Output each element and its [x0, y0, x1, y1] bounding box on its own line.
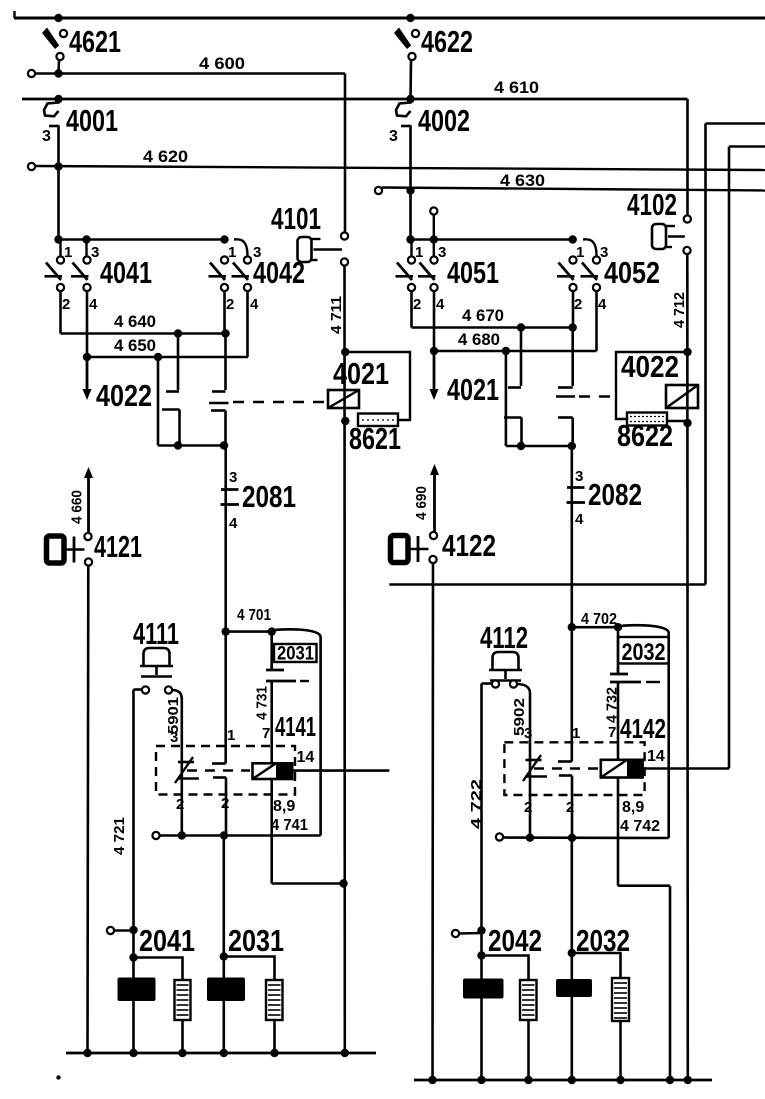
svg-text:4 650: 4 650	[114, 337, 156, 355]
wire 4660 arrow	[87, 476, 90, 533]
relay coil 4022	[683, 348, 691, 356]
connector 2082	[570, 446, 573, 627]
svg-text:4141: 4141	[275, 711, 316, 742]
wire 4600	[28, 70, 35, 77]
wire - feed line of switches 4051/4052	[411, 238, 573, 241]
wire 4650	[86, 291, 89, 357]
svg-text:1: 1	[227, 727, 235, 744]
svg-text:4 721: 4 721	[111, 817, 128, 855]
svg-text:4 701: 4 701	[237, 607, 271, 624]
node - fuse 4002 top	[406, 95, 414, 103]
svg-text:2082: 2082	[588, 477, 642, 512]
svg-text:4: 4	[575, 511, 584, 528]
wire - feed line of switches 4041/4042	[59, 238, 225, 241]
wire 5901	[172, 690, 182, 746]
svg-text:4: 4	[250, 296, 259, 313]
relay coil 4141	[253, 763, 293, 779]
svg-text:1: 1	[64, 244, 72, 261]
wire - reference arrow to relay 4021	[433, 351, 436, 391]
wire - relay 4142 pin 14	[643, 767, 729, 770]
svg-text:8,9: 8,9	[622, 799, 644, 816]
wire - relay 4142 pin 8,9 down	[617, 778, 620, 886]
svg-text:4 711: 4 711	[328, 296, 345, 334]
lamp group 2031	[223, 836, 226, 1054]
wire 4640	[59, 291, 62, 334]
svg-text:14: 14	[647, 748, 665, 765]
svg-text:14: 14	[297, 749, 315, 766]
wire 4701	[226, 630, 272, 633]
switch 4622	[394, 28, 411, 50]
svg-text:4 680: 4 680	[458, 331, 500, 349]
horn 4122	[430, 532, 437, 539]
svg-text:7: 7	[608, 724, 616, 741]
wire 4690 arrow	[433, 473, 436, 532]
svg-text:2: 2	[62, 296, 70, 313]
switch 4621	[42, 28, 59, 50]
svg-text:4 722: 4 722	[468, 779, 485, 829]
capacitor 2032 label frame	[618, 637, 669, 664]
svg-text:4051: 4051	[447, 255, 499, 290]
fuse 4001	[44, 99, 59, 116]
svg-text:4 640: 4 640	[114, 313, 156, 331]
svg-text:4052: 4052	[604, 255, 660, 290]
terminal of wire 4722	[452, 930, 459, 937]
relay 4141 armature pin 1-2	[224, 632, 227, 764]
wire - left ground bus	[66, 1052, 376, 1055]
svg-text:4102: 4102	[627, 187, 677, 222]
svg-text:2032: 2032	[576, 923, 630, 958]
wire - dashed actuation link of relay 4022	[579, 395, 614, 397]
svg-text:3: 3	[524, 725, 532, 742]
wire 4630	[375, 187, 382, 194]
svg-text:4142: 4142	[620, 713, 666, 744]
capacitor 2032	[617, 627, 620, 672]
wire - 8,9 jog to 4711 column	[272, 882, 344, 885]
svg-text:2081: 2081	[242, 479, 296, 514]
svg-text:4 742: 4 742	[620, 818, 660, 835]
wire 4712	[686, 254, 689, 1080]
svg-text:2: 2	[574, 296, 582, 313]
svg-text:1: 1	[572, 725, 580, 742]
relay contacts of 4021 (left changeover)	[177, 334, 180, 391]
svg-text:4 630: 4 630	[500, 172, 545, 190]
svg-text:4 620: 4 620	[143, 148, 188, 166]
svg-text:4 600: 4 600	[199, 55, 245, 73]
svg-text:4: 4	[89, 296, 98, 313]
svg-text:4: 4	[598, 296, 607, 313]
svg-text:3: 3	[229, 469, 237, 486]
wire - 4600 vertical drop to horn 4101	[344, 74, 347, 233]
svg-text:3: 3	[438, 244, 446, 261]
wire 4722	[482, 682, 493, 685]
svg-text:4622: 4622	[421, 24, 473, 59]
wire - loop around 2032 label to relay housing	[618, 625, 669, 838]
wire 4620	[28, 163, 35, 170]
svg-text:3: 3	[170, 729, 178, 746]
svg-text:4 741: 4 741	[271, 817, 308, 834]
wire - top supply bus	[14, 17, 765, 20]
svg-text:4121: 4121	[94, 529, 142, 564]
svg-text:4 732: 4 732	[604, 687, 621, 723]
svg-text:4111: 4111	[133, 616, 179, 651]
fuse 4002	[396, 99, 411, 116]
svg-text:4 690: 4 690	[413, 486, 430, 520]
relay 4141 contact	[181, 746, 184, 836]
wire - reference arrow to relay 4022	[86, 357, 89, 391]
relay 4142 armature pin 1-2	[570, 627, 573, 761]
svg-text:2031: 2031	[277, 644, 314, 665]
switch 4042	[221, 256, 228, 263]
svg-text:4621: 4621	[69, 24, 121, 59]
svg-text:8621: 8621	[349, 421, 401, 456]
node - bus junction of switch 4621	[54, 14, 62, 22]
svg-text:4022: 4022	[621, 349, 679, 384]
relay coil 4021	[341, 348, 349, 356]
node - bus junction of switch 4622	[406, 14, 414, 22]
svg-text:2: 2	[413, 296, 421, 313]
horn 4101	[298, 237, 312, 262]
wire - second supply bus / wire 4610	[22, 98, 688, 101]
svg-text:4001: 4001	[66, 103, 118, 138]
wire - horn 4121 to ground bus	[86, 566, 89, 1054]
terminal of wire 4721	[107, 927, 114, 934]
svg-text:4002: 4002	[418, 103, 470, 138]
relay coil 4142	[601, 760, 643, 778]
wire - right stub to relay 4142 pin 14	[729, 145, 765, 148]
wire 4711	[343, 266, 346, 1054]
stray mark	[56, 1075, 60, 1079]
svg-text:4 610: 4 610	[494, 79, 539, 97]
connector 2081	[224, 446, 227, 632]
svg-text:4022: 4022	[96, 378, 152, 413]
svg-text:4101: 4101	[271, 201, 321, 236]
wire 4670	[410, 291, 413, 328]
wire - 8,9 jog right	[618, 884, 670, 887]
svg-text:4112: 4112	[480, 620, 528, 655]
wire - right stub to relay 4141 pin 14 (via long link)	[706, 122, 765, 125]
capacitor 2031 label frame	[274, 644, 317, 662]
svg-text:4 712: 4 712	[671, 292, 688, 328]
svg-text:2: 2	[226, 296, 234, 313]
wire - 4610 drop to horn 4102	[686, 99, 689, 216]
horn 4102	[652, 224, 666, 249]
relay 4141 dashed link	[187, 769, 250, 771]
switch 4051	[408, 256, 415, 263]
svg-text:3: 3	[42, 128, 51, 145]
wire 4702	[572, 626, 618, 629]
svg-text:4021: 4021	[447, 372, 499, 407]
wire - left column from 4620 to switch block 4041	[57, 167, 60, 240]
svg-text:3: 3	[575, 468, 583, 485]
svg-text:4: 4	[436, 296, 445, 313]
svg-text:2031: 2031	[228, 923, 284, 958]
lamp group 2041	[129, 953, 137, 961]
wire - column from 4630 to switch block 4051	[409, 191, 412, 240]
wire 5902	[517, 684, 530, 742]
wire - dashed actuation link of relay 4021	[233, 401, 327, 403]
horn 4121	[84, 533, 91, 540]
svg-text:3: 3	[389, 128, 398, 145]
svg-text:1: 1	[415, 244, 423, 261]
relay contacts of 4022 (right changeover)	[520, 328, 523, 387]
wire - relay 4141 pin 14	[292, 769, 389, 772]
wire - contact common of relay 4021	[158, 444, 226, 447]
relay 4142 dashed link	[534, 767, 598, 769]
svg-text:3: 3	[91, 244, 99, 261]
wire - contact common of relay 4022	[506, 445, 572, 448]
svg-text:4: 4	[229, 515, 238, 532]
resistor 8621	[358, 414, 398, 427]
wire - right ground bus	[414, 1079, 712, 1082]
svg-text:4041: 4041	[100, 255, 152, 290]
svg-text:4021: 4021	[333, 356, 389, 391]
switch 4052	[569, 256, 576, 263]
wire - horn 4122 to ground bus	[431, 563, 434, 1080]
wire - relay 4142 bottom common	[496, 833, 503, 840]
lamp group 2032	[570, 838, 573, 1080]
svg-text:4 670: 4 670	[462, 307, 504, 325]
node - fuse 4001 top	[54, 95, 62, 103]
svg-text:4 702: 4 702	[581, 611, 617, 628]
svg-text:1: 1	[228, 244, 236, 261]
svg-text:2042: 2042	[488, 923, 542, 958]
wire 4721	[134, 688, 143, 691]
svg-text:2041: 2041	[139, 923, 195, 958]
svg-text:8,9: 8,9	[273, 798, 295, 815]
svg-text:1: 1	[576, 244, 584, 261]
svg-text:4122: 4122	[442, 528, 496, 563]
svg-text:8622: 8622	[617, 418, 673, 453]
wire - long link from relay 4141 pin 14 to right stub	[389, 583, 705, 586]
relay 4141 outline	[156, 746, 295, 795]
svg-text:4 731: 4 731	[254, 686, 271, 720]
relay 4142 contact	[529, 742, 532, 838]
wire - loop around 2031 label to relay housing	[272, 629, 321, 835]
switch 4041	[57, 256, 64, 263]
lamp group 2042	[477, 951, 485, 959]
svg-text:7: 7	[262, 725, 270, 742]
wire 4680	[433, 291, 436, 351]
wire - relay 4141 bottom common	[152, 832, 159, 839]
svg-text:4 660: 4 660	[69, 490, 86, 524]
relay 4142 outline	[504, 742, 644, 795]
svg-text:2032: 2032	[622, 639, 666, 666]
resistor 8622	[627, 413, 667, 426]
wire - relay 4141 pin 8,9 down	[270, 779, 273, 884]
capacitor 2031	[270, 632, 273, 669]
